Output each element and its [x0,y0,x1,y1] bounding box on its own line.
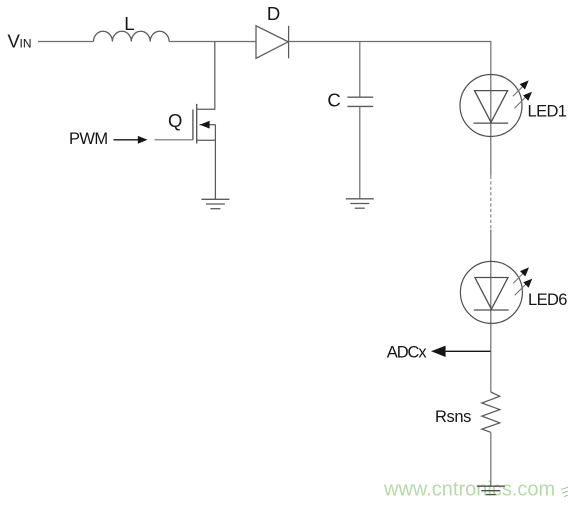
svg-text:D: D [267,3,280,24]
wire LED6 to resistor [490,351,492,392]
arrow ADCx tap [431,346,491,357]
wire capacitor to ground [359,106,361,198]
label D [267,3,280,24]
body diode arrow of Q [200,121,210,129]
label PWM [69,130,108,148]
LED1 triangle [475,91,508,123]
label LED1 [528,103,567,121]
watermark www.cntronics.com [383,479,555,501]
node VIN label [8,31,32,52]
svg-text:IN: IN [20,37,32,51]
ground (bottom) [477,486,505,494]
LED1 cathode bar [473,122,508,124]
ground (transistor) [201,199,229,208]
ground (capacitor) [346,199,374,208]
svg-text:Rsns: Rsns [435,408,471,426]
LED1 emission arrows [513,80,532,108]
label ADCx [387,344,428,362]
svg-text:L: L [124,13,134,34]
svg-text:www.cntronics.com: www.cntronics.com [383,479,555,501]
wire capacitor top [359,42,361,98]
label Rsns [435,408,471,426]
watermark partial glyph right edge [561,487,568,496]
svg-text:PWM: PWM [69,130,108,148]
wire diode to output corner [289,41,491,43]
svg-text:Q: Q [168,110,182,131]
label Q [168,110,182,131]
svg-text:C: C [327,90,340,111]
svg-text:LED1: LED1 [528,103,567,121]
wire junction to MOSFET drain [197,42,215,110]
LED6 triangle [475,278,508,310]
LED1 circle [460,75,522,137]
wire inductor to diode [169,41,256,43]
svg-text:ADCx: ADCx [387,344,428,362]
LED6 emission arrows [513,267,532,295]
arrow PWM input [114,136,148,144]
label L [124,13,134,34]
capacitor C [347,97,373,106]
label C [327,90,340,111]
wire VIN to inductor [38,41,94,43]
resistor Rsns [482,392,500,432]
wire output corner down to LED1 [490,41,492,176]
LED6 cathode bar [474,309,509,311]
svg-text:LED6: LED6 [528,291,567,309]
wire resistor to ground [490,432,492,486]
inductor L [94,31,170,41]
wire PWM to gate [155,139,193,141]
dashed wire between LED1 and LED6 [490,176,492,230]
label LED6 [528,291,567,309]
wire LED string to LED6 [490,230,492,352]
transistor Q [193,104,197,144]
diode D [256,26,289,59]
LED6 circle [460,261,522,323]
